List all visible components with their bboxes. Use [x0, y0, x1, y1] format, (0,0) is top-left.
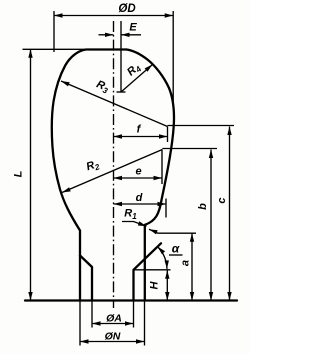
- svg-text:d: d: [136, 192, 143, 204]
- svg-text:b: b: [197, 203, 209, 210]
- svg-text:ØD: ØD: [118, 3, 135, 15]
- svg-text:H: H: [149, 280, 161, 289]
- svg-text:c: c: [216, 197, 228, 203]
- svg-text:e: e: [135, 166, 141, 178]
- svg-text:α: α: [172, 242, 180, 256]
- svg-text:ØN: ØN: [105, 331, 121, 343]
- svg-text:ØA: ØA: [106, 313, 122, 325]
- svg-text:L: L: [13, 170, 25, 177]
- svg-text:a: a: [180, 260, 192, 266]
- svg-text:E: E: [129, 22, 137, 34]
